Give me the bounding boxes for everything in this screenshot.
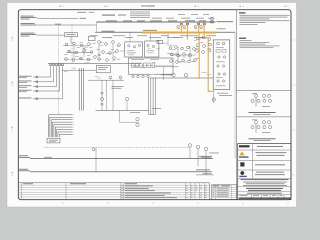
notes column divider bbox=[236, 10, 238, 200]
title block header text bbox=[257, 145, 283, 148]
valve arrangement legend 1 bbox=[249, 93, 276, 115]
instrument on y78 a bbox=[172, 74, 175, 77]
main process pipe (highlighted run) bbox=[95, 31, 235, 33]
stream label 2 bbox=[21, 23, 37, 25]
main pipe label 2 bbox=[143, 29, 157, 32]
drawing area title text bbox=[102, 14, 115, 17]
line 2 spec label bbox=[55, 23, 61, 26]
paper sheet bbox=[7, 3, 297, 208]
company 3 text line 1 bbox=[256, 171, 284, 174]
vessel V2 feed riser bbox=[150, 32, 152, 41]
misc tag text bbox=[64, 37, 211, 78]
pipe line from label 1 bbox=[37, 18, 78, 20]
cluster D subline bbox=[161, 74, 172, 76]
legend text block bbox=[239, 38, 280, 48]
outlet labels bbox=[217, 92, 228, 95]
highlighted drop 3 bbox=[204, 34, 212, 92]
top data table text bbox=[130, 12, 150, 18]
bottom pipe 2 right label bbox=[196, 169, 210, 172]
top pipe label b bbox=[150, 20, 162, 23]
manifold branch valves bbox=[36, 76, 38, 100]
cluster D feed riser bbox=[167, 32, 169, 46]
tall equipment enclosure bbox=[213, 40, 230, 90]
top pipe label e bbox=[123, 20, 132, 23]
reference table outline bbox=[212, 185, 237, 200]
line y110 bbox=[96, 110, 149, 112]
bottom pipe 2 bbox=[30, 171, 212, 173]
line 1 spec label bbox=[80, 17, 87, 20]
instrument cluster A bbox=[63, 42, 96, 61]
pipe line from label 3 bbox=[37, 34, 65, 36]
instrument on y80 a bbox=[109, 76, 112, 79]
box outlet drop bbox=[70, 37, 72, 44]
margin grid reference ticks bbox=[11, 5, 294, 204]
labelled equipment box bbox=[96, 65, 110, 72]
bottom stream label 1 bbox=[18, 154, 28, 157]
highlight arrow bbox=[213, 90, 215, 92]
manifold isolation valves bbox=[49, 64, 63, 66]
top pipe label d bbox=[185, 19, 195, 22]
drain valve 2 bbox=[196, 145, 199, 148]
line y122 bbox=[119, 121, 139, 123]
pipe return drop bbox=[234, 32, 236, 158]
company 1 text line 1 bbox=[256, 151, 287, 154]
vertical branch x102 bbox=[101, 80, 103, 110]
reference table rows bbox=[212, 185, 237, 200]
project text 3 bbox=[243, 184, 287, 187]
top pipe end valve bbox=[211, 21, 214, 23]
company 3 logo underline bbox=[239, 176, 247, 177]
pipe line y80 bbox=[88, 79, 124, 81]
manifold branch 5 bbox=[19, 66, 63, 99]
top header pipe bbox=[97, 21, 216, 23]
stub tag row 2 bbox=[178, 13, 185, 16]
cluster D header bbox=[155, 66, 178, 68]
company 2 text bbox=[255, 163, 285, 166]
pipe riser at header bbox=[96, 22, 98, 32]
instrument cluster B bbox=[89, 36, 121, 61]
company 3 logo bbox=[240, 171, 244, 175]
top pipe end label bbox=[217, 20, 234, 23]
legend box divider 2 bbox=[237, 116, 291, 118]
utility inline symbol bbox=[92, 148, 95, 151]
main pipe label bbox=[102, 30, 115, 33]
label y112 bbox=[130, 111, 140, 114]
drawing title line 1 bbox=[246, 187, 283, 190]
revision table entries bbox=[121, 186, 206, 199]
drawing subtitle bbox=[247, 192, 282, 195]
main pipe right label bbox=[217, 28, 226, 31]
riser x113 bbox=[112, 80, 114, 110]
company logo triangle bbox=[239, 151, 244, 155]
title block row dividers bbox=[238, 144, 291, 195]
pipes under highlight bbox=[181, 22, 213, 91]
manifold label box bbox=[47, 138, 60, 143]
pipe line from label 2 bbox=[37, 24, 97, 26]
bottom stream label 2 bbox=[18, 168, 28, 171]
manifold branch 1 bbox=[19, 66, 51, 78]
fan end ticks bbox=[72, 115, 73, 135]
top margin label bbox=[141, 5, 155, 6]
instrument cluster E bbox=[196, 36, 212, 53]
instrument on y80 b bbox=[119, 76, 122, 79]
bottom pipe 3 bbox=[196, 174, 214, 176]
highlighted riser stubs bbox=[181, 22, 204, 31]
top pipe label f bbox=[137, 20, 145, 23]
enclosure outlet bbox=[213, 93, 215, 104]
drawing title line 2 bbox=[248, 189, 281, 192]
title block bottom cells bbox=[252, 195, 285, 200]
bottom pipe 1 bbox=[30, 157, 213, 159]
drain valve 3 bbox=[204, 147, 207, 150]
riser valves bbox=[177, 23, 206, 29]
company logo wordmark bbox=[239, 156, 249, 157]
vessel V1 feed riser bbox=[129, 32, 131, 42]
control signal dashed line bbox=[58, 25, 60, 115]
inst pair x137 bbox=[136, 118, 139, 121]
manifold header line bbox=[48, 62, 141, 64]
notes text block NOTES bbox=[239, 12, 290, 24]
project text 2 bbox=[246, 182, 285, 185]
valve arrangement legend 2 bbox=[249, 120, 276, 142]
top pipe label g bbox=[199, 20, 206, 23]
bottom pipe 1 right label bbox=[199, 155, 212, 158]
riser x106 bbox=[106, 80, 108, 110]
highlighted drop 1 bbox=[186, 34, 188, 40]
vessel V2 bbox=[145, 41, 159, 57]
center pipe bundle bbox=[149, 78, 156, 115]
drop x119 bbox=[118, 111, 120, 123]
drain label bbox=[209, 152, 219, 155]
manifold skid box bbox=[129, 58, 174, 78]
bottom pipe 3 label bbox=[203, 172, 212, 175]
stream label 3 bbox=[21, 33, 37, 37]
instrument on y78 b bbox=[184, 74, 187, 77]
bottom pipe 1 mid label bbox=[44, 156, 52, 159]
vessel V1 bbox=[125, 42, 143, 57]
instrument cluster D bbox=[157, 40, 199, 63]
manifold branch 3 bbox=[19, 66, 57, 87]
drawing border frame bbox=[18, 10, 291, 200]
top pipe label a bbox=[106, 20, 117, 23]
manifold branch 2 bbox=[19, 66, 54, 83]
drawing number strip bbox=[239, 198, 290, 199]
lower header pipe y78 bbox=[150, 77, 213, 79]
legend box divider 1 bbox=[237, 90, 291, 92]
distribution manifold fan bbox=[49, 115, 73, 137]
company 1 text line 2 bbox=[257, 154, 285, 157]
manifold branch 4 bbox=[19, 66, 60, 92]
highlighted drop 2 bbox=[198, 34, 200, 79]
cluster D drop bbox=[163, 67, 165, 80]
project bar bbox=[241, 178, 289, 181]
revision table grid bbox=[18, 183, 209, 200]
dashed utility line bbox=[44, 147, 189, 149]
control signal dashed line 2 bbox=[71, 25, 73, 63]
company 3 text line 2 bbox=[255, 173, 285, 176]
pipe bundle risers bbox=[79, 68, 83, 111]
highlighted pipe route (main run) bbox=[142, 32, 216, 34]
instrument tag band bbox=[90, 35, 216, 37]
stub tag row bbox=[152, 17, 162, 20]
note text mid-left bbox=[112, 85, 124, 88]
bottom cell labels bbox=[240, 194, 283, 197]
stream label 1 bbox=[21, 16, 37, 20]
project text 1 bbox=[243, 181, 287, 184]
drain valve 1 bbox=[188, 144, 191, 147]
inline equipment box bbox=[65, 33, 78, 37]
top pipe label c bbox=[168, 20, 177, 23]
lower header line bbox=[62, 69, 96, 71]
title block header logo bbox=[239, 145, 250, 147]
title block outline bbox=[238, 144, 291, 200]
company 2 logo bbox=[240, 162, 244, 166]
inst on y110 bbox=[125, 97, 128, 100]
upper margin labels bbox=[77, 11, 86, 14]
